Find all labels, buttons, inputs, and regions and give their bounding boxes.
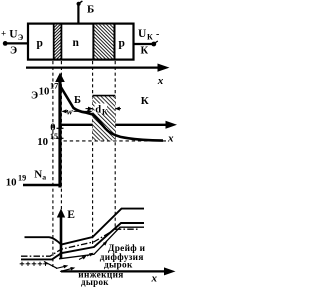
svg-text:19: 19: [18, 173, 26, 182]
potential line C: [21, 223, 144, 259]
collector-base junction hatched strip: [93, 24, 114, 60]
svg-text:10: 10: [39, 86, 50, 98]
svg-text:x: x: [151, 272, 158, 284]
tick 1e15: [57, 137, 64, 139]
svg-text:p: p: [119, 38, 125, 50]
base terminal wire: [77, 4, 79, 24]
svg-text:x: x: [167, 132, 174, 144]
concentration curve: [61, 87, 163, 141]
concentration axis vertical: [58, 76, 61, 188]
w dimension arrows: [62, 106, 93, 116]
collector depletion hatched strip middle plot: [93, 96, 116, 141]
tick 0: [57, 127, 64, 129]
svg-text:Б: Б: [87, 4, 94, 16]
svg-text:дырок: дырок: [81, 277, 109, 287]
dashed level 1e15: [64, 140, 167, 142]
svg-text:E: E: [67, 209, 75, 221]
svg-text:Э: Э: [10, 46, 17, 57]
emitter doping level line 1e19: [23, 184, 60, 187]
emitter terminal dot: [3, 41, 8, 46]
x axis bottom: [61, 270, 166, 272]
dashed line emitter junction right edge: [60, 61, 62, 214]
x axis of structure: [26, 66, 160, 68]
dashed line emitter junction left edge: [52, 61, 54, 267]
collector terminal dot: [151, 42, 156, 47]
potential line A top: [25, 209, 145, 245]
svg-text:p: p: [37, 38, 43, 50]
svg-text:U: U: [138, 28, 147, 40]
svg-text:-: -: [156, 29, 159, 40]
transistor body box: [28, 24, 134, 60]
base terminal dot: [77, 2, 81, 6]
svg-text:Б: Б: [74, 95, 81, 106]
svg-text:17: 17: [50, 82, 58, 91]
collector terminal wire: [134, 43, 154, 45]
svg-text:Э: Э: [31, 90, 38, 101]
dashed line collector junction right edge: [114, 61, 116, 228]
drift arrows on line D: [79, 241, 107, 259]
svg-text:x: x: [157, 75, 164, 87]
potential line D: [59, 227, 144, 259]
dashed line collector junction left edge: [92, 61, 94, 247]
svg-text:К: К: [141, 95, 149, 107]
svg-text:а: а: [42, 173, 46, 182]
concentration x axis: [60, 124, 168, 126]
d_k dimension arrows: [86, 104, 122, 117]
E field axis: [60, 216, 63, 258]
emitter-base junction hatched strip: [54, 24, 62, 60]
svg-text:15: 15: [50, 132, 58, 141]
svg-text:10: 10: [6, 177, 17, 189]
svg-text:дырок: дырок: [104, 260, 133, 270]
injection arrows: [44, 262, 75, 272]
svg-text:n: n: [73, 37, 80, 49]
emitter terminal wire: [5, 42, 28, 44]
svg-text:К: К: [147, 33, 153, 42]
svg-text:Э: Э: [18, 33, 24, 42]
svg-text:w: w: [67, 106, 74, 116]
svg-text:N: N: [34, 168, 42, 180]
svg-text:10: 10: [37, 136, 48, 148]
svg-text:К: К: [141, 45, 149, 56]
plus charges: [20, 262, 48, 266]
svg-text:d: d: [95, 104, 101, 115]
potential line B dash-dot: [21, 229, 138, 256]
svg-text:К: К: [102, 108, 108, 117]
svg-text:+: +: [1, 29, 6, 39]
